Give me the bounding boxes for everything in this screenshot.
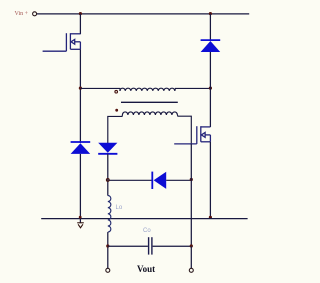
diode D1	[201, 14, 221, 89]
transistor Q2	[174, 126, 210, 144]
wire Q1 source vertical	[79, 49, 81, 143]
node primary polarity dot	[115, 90, 118, 93]
svg-text:Vout: Vout	[137, 264, 155, 274]
wire top rail	[37, 13, 249, 15]
wire Q1 drain vertical	[79, 14, 81, 34]
wire Lo to output	[107, 232, 109, 268]
wire Q2 source vertical	[209, 142, 211, 219]
wire D3 anode down	[107, 154, 109, 196]
wire D2 cathode to rail	[79, 154, 81, 223]
inductor Lo	[108, 196, 111, 233]
inductor T1 primary winding	[120, 88, 175, 91]
wire to Vout- terminal	[190, 246, 192, 268]
terminal Vin	[33, 12, 37, 16]
wire primary left lead	[80, 88, 120, 91]
diode D4	[152, 172, 166, 189]
node secondary polarity dot	[115, 109, 118, 112]
terminal Vout-	[189, 268, 193, 272]
terminal Vout+	[106, 268, 110, 272]
node Co left junction	[106, 244, 109, 247]
node top-left junction	[79, 12, 82, 15]
transformer T1 core	[121, 101, 178, 103]
svg-text:Co: Co	[143, 228, 151, 234]
wire D4 anode lead	[166, 179, 191, 181]
wire primary right lead	[175, 88, 211, 91]
node rail ground junction	[79, 216, 82, 219]
node Co right junction	[190, 244, 193, 247]
wire secondary right lead	[177, 115, 191, 144]
diode D3	[98, 143, 117, 154]
transistor Q1	[43, 33, 81, 51]
wire secondary left lead	[108, 115, 123, 143]
wire Co left lead	[108, 245, 148, 247]
node D4 anode junction	[190, 178, 193, 181]
node primary-right junction	[209, 87, 212, 90]
capacitor Co	[149, 237, 152, 254]
svg-text:Vin +: Vin +	[15, 11, 29, 17]
wire D4 cathode lead	[109, 179, 151, 181]
node top-right junction	[209, 12, 212, 15]
wire right rail to Q2 drain	[209, 88, 211, 127]
svg-text:Lo: Lo	[116, 205, 123, 211]
wire gate net vertical	[190, 144, 192, 246]
node primary-left junction	[79, 87, 82, 90]
node Q2 source to rail junction	[209, 216, 212, 219]
node D3-D4 ring junction	[106, 179, 109, 182]
diode D2	[71, 142, 91, 154]
wire bottom rail	[41, 218, 247, 220]
wire Co right lead	[153, 245, 192, 247]
ground	[77, 223, 84, 228]
inductor T1 secondary winding	[122, 112, 177, 115]
